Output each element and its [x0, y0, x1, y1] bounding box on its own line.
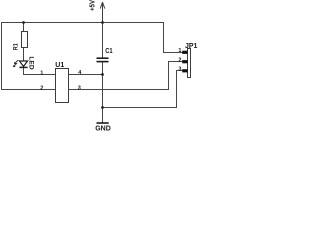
wire U1 pin 3 to JP1 pin 2	[69, 62, 183, 90]
ground symbol	[97, 122, 109, 124]
wire C1 bottom through junctions to GND symbol	[102, 62, 104, 122]
svg-text:2: 2	[178, 57, 181, 63]
JP1 pin pad 2	[182, 60, 187, 63]
capacitor C1 plates	[97, 58, 109, 61]
wire +5V rail drop to C1	[102, 23, 104, 58]
LED emission arrow 2	[13, 63, 17, 67]
JP1 pin pad 1	[182, 51, 187, 54]
LED emission arrow 1	[14, 60, 18, 64]
junction dot at U1 pin4 / GND net	[101, 73, 104, 76]
connector JP1 body	[188, 49, 191, 78]
+5V supply symbol arrow	[100, 2, 105, 22]
LED D1 diode triangle	[19, 61, 27, 66]
op IC U1 box	[56, 69, 69, 103]
junction dot at GND wire to JP1	[101, 106, 104, 109]
svg-text:LED: LED	[28, 56, 35, 69]
svg-text:C1: C1	[105, 48, 112, 55]
wire R1 bottom to LED	[23, 48, 25, 62]
svg-text:+5V: +5V	[88, 0, 97, 11]
wire R1 top connection	[23, 23, 25, 32]
svg-text:JP1: JP1	[185, 43, 198, 50]
svg-text:3: 3	[78, 86, 81, 92]
wire left side loop to U1 pin 2	[2, 23, 56, 90]
svg-text:GND: GND	[95, 126, 111, 133]
JP1 pin pad 3	[182, 69, 187, 72]
svg-text:U1: U1	[55, 62, 64, 69]
resistor R1	[22, 32, 28, 48]
svg-text:1: 1	[178, 48, 181, 54]
svg-text:R1: R1	[13, 43, 20, 50]
junction dot at +5V/C1 rail	[101, 21, 104, 24]
svg-text:1: 1	[40, 71, 43, 77]
LED cathode bar	[19, 66, 27, 68]
wire top rail to JP1 pin 1	[164, 23, 183, 53]
wire LED cathode to U1 pin 1	[24, 68, 56, 74]
wire top rail +5V	[2, 22, 164, 24]
svg-text:3: 3	[178, 67, 181, 73]
svg-text:2: 2	[40, 86, 43, 92]
wire U1 pin 4 to GND node	[69, 74, 103, 76]
junction dot at R1/top rail	[22, 21, 25, 24]
wire GND net to JP1 pin 3	[103, 71, 183, 108]
